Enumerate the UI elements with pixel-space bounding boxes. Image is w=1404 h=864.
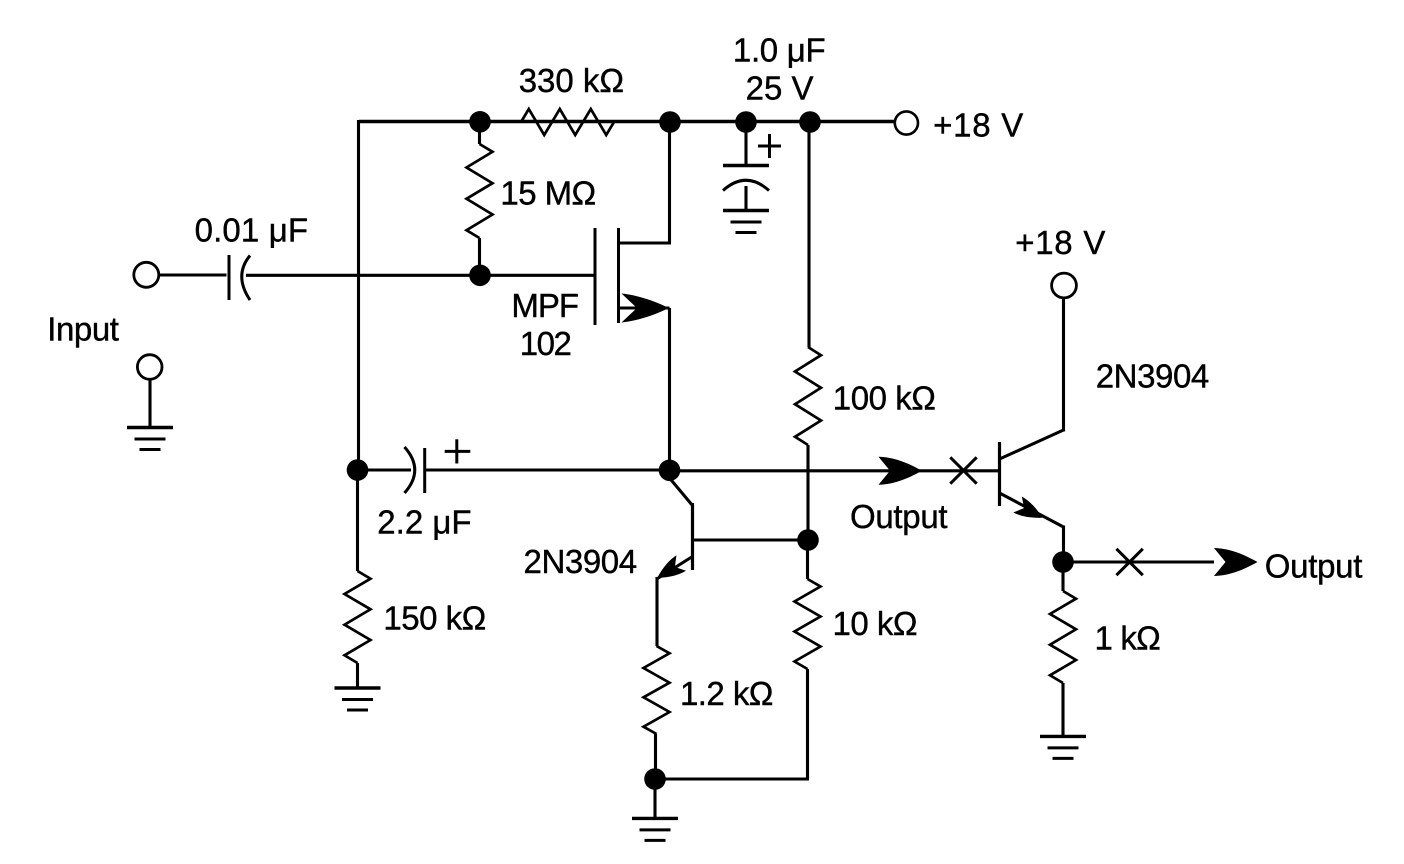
label 100 kΩ value — [833, 380, 936, 417]
terminal input ground — [137, 355, 162, 380]
terminal +18 V top — [895, 111, 918, 134]
label + polarity 2.2uF — [445, 439, 471, 463]
svg-text:150 kΩ: 150 kΩ — [383, 600, 485, 637]
svg-text:Output: Output — [1265, 548, 1362, 585]
wire 150k top stub — [356, 470, 359, 571]
wire 1k bottom stub — [1061, 683, 1064, 735]
wire 150k bottom stub — [356, 663, 359, 687]
label 2N3904 Q2 — [1096, 358, 1209, 395]
wire 15M top stub — [478, 122, 481, 144]
svg-text:1.2 kΩ: 1.2 kΩ — [680, 675, 773, 712]
label Input — [47, 310, 118, 347]
label 0.01 µF value — [195, 212, 309, 249]
node rail-left corner junction — [469, 111, 491, 133]
wire 100k to base node — [806, 445, 809, 540]
node gate junction — [469, 265, 491, 287]
ground 1.0uF — [723, 211, 769, 233]
svg-text:Output: Output — [850, 498, 947, 535]
transistor MPF 102 JFET gate bar — [594, 228, 597, 325]
ground 1k — [1040, 736, 1086, 758]
wire Q2 emitter down — [1062, 526, 1065, 563]
terminal +18 V right — [1052, 273, 1077, 298]
resistor 15 MΩ — [467, 144, 493, 238]
wire 10k bottom to corner — [806, 669, 809, 779]
ground bottom — [632, 818, 678, 840]
svg-text:0.01 μF: 0.01 μF — [195, 212, 309, 249]
label 102 — [520, 325, 571, 362]
svg-text:+18 V: +18 V — [1015, 224, 1106, 261]
transistor Q2 2N3904 base bar — [998, 442, 1001, 506]
arrow MPF102 source — [622, 294, 670, 323]
wire source lead — [617, 308, 670, 470]
label + polarity 1.0uF — [758, 134, 781, 158]
wire bottom return — [655, 777, 809, 780]
wire rail to +18V terminal — [810, 120, 894, 123]
transistor MPF 102 channel bar — [617, 228, 620, 323]
wire 10k top stub — [806, 540, 809, 579]
svg-text:102: 102 — [520, 325, 571, 362]
wire input to capacitor — [160, 273, 227, 276]
wire top +18 V rail — [359, 120, 895, 124]
wire input ground stub — [148, 381, 151, 427]
wire dot to 2.2uF — [358, 468, 412, 471]
svg-text:10 kΩ: 10 kΩ — [833, 605, 918, 642]
capacitor 0.01 µF — [229, 255, 250, 300]
wire 1.0uF top stub — [744, 122, 747, 164]
svg-text:2N3904: 2N3904 — [1096, 358, 1209, 395]
svg-text:1 kΩ: 1 kΩ — [1095, 620, 1161, 657]
wire output2 — [1063, 560, 1214, 563]
label 2N3904 Q1 — [524, 543, 637, 580]
wire Q1 base lead — [693, 538, 809, 541]
label 150 kΩ value — [383, 600, 485, 637]
node divider junction — [797, 529, 819, 551]
wire Q1 collector lead — [670, 478, 693, 506]
svg-text:330 kΩ: 330 kΩ — [519, 62, 624, 99]
label 25 V value — [746, 69, 814, 106]
resistor 10 kΩ — [795, 579, 821, 669]
terminal Input — [134, 262, 159, 287]
wire gate line — [246, 274, 594, 277]
wire Q1 emitter down — [655, 577, 658, 646]
label Output 2 — [1265, 548, 1362, 585]
resistor 150 kΩ — [345, 571, 371, 663]
wire 2.2uF to source node — [425, 468, 670, 471]
label +18 V top — [933, 106, 1024, 143]
label 15 MΩ value — [500, 175, 595, 212]
wire Q2 emitter lead — [1000, 493, 1064, 527]
resistor 1.2 kΩ — [644, 646, 670, 734]
wire 15M bottom stub — [478, 238, 481, 275]
node 330k right junction — [659, 111, 681, 133]
wire Q2 collector lead — [1000, 430, 1064, 459]
svg-text:2.2 μF: 2.2 μF — [377, 504, 471, 541]
label 330 kΩ value — [519, 62, 624, 99]
node source junction — [659, 460, 681, 482]
transistor Q1 2N3904 base bar — [691, 503, 694, 570]
wire 100k top stub — [807, 122, 810, 347]
wire drain lead — [617, 121, 670, 245]
arrow Q2 emitter — [1013, 496, 1047, 525]
capacitor 2.2 µF — [405, 447, 425, 493]
resistor 100 kΩ — [795, 347, 821, 445]
label +18 V right — [1015, 224, 1106, 261]
wire 1.2k bottom stub — [654, 734, 657, 779]
node 1.0uF junction — [735, 111, 757, 133]
resistor 330 kΩ — [521, 109, 614, 135]
arrow Q1 emitter — [652, 555, 686, 585]
node 100k junction — [799, 111, 821, 133]
resistor 1 kΩ — [1050, 591, 1076, 683]
label MPF — [511, 287, 578, 324]
node bottom junction — [644, 768, 666, 790]
ground input — [127, 428, 173, 450]
arrow output1 — [879, 457, 923, 485]
node output2 junction — [1052, 551, 1074, 573]
wire 1k top stub — [1061, 562, 1064, 591]
label Output 1 — [850, 498, 947, 535]
svg-text:MPF: MPF — [511, 287, 578, 324]
x-mark output2 — [1116, 549, 1142, 575]
wire Q1 emitter lead — [658, 557, 693, 579]
ground 150k — [335, 688, 381, 710]
wire left bus vertical — [357, 120, 360, 470]
svg-text:+18 V: +18 V — [933, 106, 1024, 143]
wire output1 — [670, 469, 998, 472]
label 1.2 kΩ value — [680, 675, 773, 712]
label 1 kΩ value — [1095, 620, 1161, 657]
svg-text:100 kΩ: 100 kΩ — [833, 380, 936, 417]
wire bottom ground stub — [653, 779, 656, 817]
svg-text:1.0 μF: 1.0 μF — [733, 31, 825, 68]
svg-text:25 V: 25 V — [746, 69, 814, 106]
svg-text:2N3904: 2N3904 — [524, 543, 637, 580]
wire Q2 collector up — [1062, 298, 1065, 432]
svg-text:Input: Input — [47, 310, 118, 347]
arrow output2 — [1214, 548, 1258, 576]
svg-text:15 MΩ: 15 MΩ — [500, 175, 595, 212]
label 10 kΩ value — [833, 605, 918, 642]
node 2.2uF junction — [347, 459, 369, 481]
x-mark output1 — [950, 457, 976, 483]
label 2.2 µF value — [377, 504, 471, 541]
capacitor 1.0 µF 25 V — [723, 166, 769, 212]
label 1.0 µF value — [733, 31, 825, 68]
